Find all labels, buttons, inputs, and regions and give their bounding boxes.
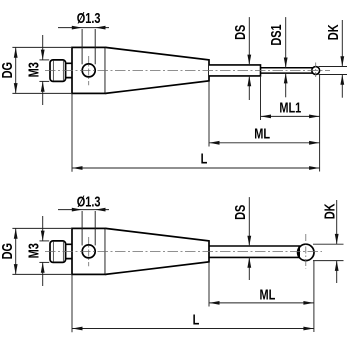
top stylus holder body <box>72 47 105 93</box>
dim M3 lower: dimension line segments <box>42 216 44 241</box>
dim Ø1.3 lower: dimension line <box>58 209 109 211</box>
svg-text:ML: ML <box>259 286 275 303</box>
bot thread chamfer line left <box>52 242 54 262</box>
svg-text:L: L <box>201 150 208 167</box>
bot hole vertical centerline <box>88 237 90 266</box>
bot stylus neck <box>66 244 72 258</box>
upper stem DS1 thin section <box>261 68 314 73</box>
top stylus M3 thread body <box>50 60 66 82</box>
svg-text:DS: DS <box>232 204 249 220</box>
dim ML lower: extension lines <box>208 262 210 307</box>
top stylus cross hole <box>82 64 95 77</box>
top stylus taper cone <box>105 47 209 93</box>
svg-text:DS: DS <box>232 24 249 40</box>
dim Ø1.3 upper: extension lines <box>81 29 83 64</box>
upper ball vertical centerline <box>315 63 317 79</box>
lower stem DS section <box>209 246 299 257</box>
svg-text:L: L <box>193 311 200 328</box>
upper stem DS section <box>209 65 261 76</box>
bot thread chamfer line right <box>62 242 64 262</box>
dim DG upper: extension lines <box>12 46 71 48</box>
svg-text:DS1: DS1 <box>268 24 285 45</box>
svg-text:M3: M3 <box>25 243 42 258</box>
svg-text:DG: DG <box>0 62 15 78</box>
dim DK lower: extension lines <box>313 243 344 245</box>
dim DG lower: dimension line <box>15 228 17 274</box>
dim Ø1.3 upper: dimension line <box>58 27 109 29</box>
lower ball vertical centerline <box>305 234 307 269</box>
dim ML1 upper: dimension line <box>261 115 320 117</box>
dim L upper: extension line <box>71 93 73 171</box>
svg-text:ML1: ML1 <box>279 99 301 116</box>
svg-text:Ø1.3: Ø1.3 <box>77 10 101 27</box>
top thread chamfer line right <box>62 61 64 81</box>
bot stylus cross hole <box>82 245 95 258</box>
dim DS1 upper: dimension line segments <box>285 17 287 68</box>
dim DS lower: dimension line segments <box>248 197 250 246</box>
svg-text:DK: DK <box>325 24 342 40</box>
lower stylus ball tip <box>298 244 314 260</box>
dim M3 upper: extension ticks <box>39 59 49 61</box>
dim L lower: dimension line <box>72 328 314 330</box>
dim DS upper: dimension line segments <box>248 17 250 65</box>
bot stylus holder body <box>72 228 105 274</box>
svg-text:ML: ML <box>254 125 270 142</box>
dim ML lower: dimension line <box>209 302 314 304</box>
dim ML upper: extension line <box>208 81 210 147</box>
svg-text:DG: DG <box>0 243 15 259</box>
dim L upper: dimension line <box>72 167 319 169</box>
upper stylus centerline <box>45 69 330 71</box>
dim DG lower: extension lines <box>12 227 71 229</box>
dim L lower: extension line <box>71 275 73 333</box>
top thread chamfer line left <box>52 61 54 81</box>
dim DG upper: dimension line <box>15 47 17 93</box>
svg-text:M3: M3 <box>25 62 42 77</box>
dim M3 upper: dimension line segments <box>42 35 44 60</box>
dim DK upper: dimension line segments <box>341 20 343 67</box>
dim DK lower: dimension line segments <box>336 200 338 244</box>
lower stylus centerline <box>45 250 322 252</box>
dim M3 lower: extension ticks <box>39 240 49 242</box>
svg-text:DK: DK <box>321 203 338 219</box>
dim DK upper: extension lines <box>319 66 348 68</box>
svg-text:Ø1.3: Ø1.3 <box>77 193 101 210</box>
upper stylus ball tip <box>312 67 320 75</box>
top hole vertical centerline <box>88 56 90 85</box>
top stylus neck <box>66 63 72 77</box>
bot stylus taper cone <box>105 228 209 274</box>
dim ML1 upper: extension lines <box>260 76 262 120</box>
dim ML upper: dimension line <box>209 142 319 144</box>
dim Ø1.3 lower: extension lines <box>81 211 83 245</box>
bot stylus M3 thread body <box>50 241 66 263</box>
